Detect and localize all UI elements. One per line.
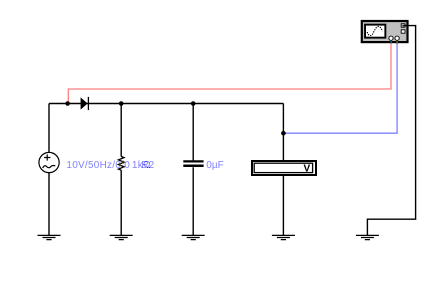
node A dot	[65, 101, 70, 106]
node B dot	[119, 101, 124, 106]
wire resistor branch lower	[120, 170, 122, 235]
svg-text:0µF: 0µF	[206, 160, 223, 171]
resistor R zigzag	[118, 156, 124, 170]
oscilloscope terminal T1 pin dot	[402, 25, 404, 27]
diode D1 triangle	[81, 97, 88, 109]
capacitor C plate top	[183, 160, 203, 162]
ground 1 (source)	[38, 235, 61, 239]
oscilloscope body	[362, 21, 408, 42]
capacitor C plate bottom	[183, 165, 203, 168]
svg-text:10V/50Hz/0°: 10V/50Hz/0°	[66, 160, 125, 171]
wire oscilloscope ground run	[367, 26, 415, 236]
ground 3 (capacitor)	[182, 235, 205, 239]
wire left vertical to source top	[48, 104, 50, 153]
wire voltmeter bottom to ground	[282, 176, 284, 236]
AC source V1 circle	[39, 152, 59, 172]
svg-text:0: 0	[124, 160, 130, 171]
ground 5 (oscilloscope)	[356, 235, 379, 239]
wire top horizontal bus	[49, 103, 283, 105]
ground 4 (voltmeter)	[272, 235, 295, 239]
diode D1 cathode bar	[87, 97, 89, 110]
voltmeter outer box	[252, 161, 316, 175]
blue probe wire	[286, 41, 398, 134]
AC source tilde	[43, 166, 56, 168]
node D dot	[281, 131, 286, 136]
wire capacitor branch upper	[192, 104, 194, 161]
red probe wire	[68, 41, 391, 102]
oscilloscope terminal T1 (top)	[401, 24, 405, 27]
oscilloscope screen	[365, 25, 385, 38]
oscilloscope probe terminal A	[389, 36, 393, 40]
AC source plus sign	[44, 154, 50, 160]
oscilloscope terminal T2	[401, 30, 405, 33]
wire right vertical to voltmeter	[282, 104, 284, 161]
wire capacitor branch lower	[192, 167, 194, 235]
svg-text:R2: R2	[141, 160, 154, 171]
ground 2 (resistor)	[110, 235, 133, 239]
voltmeter inner box	[254, 163, 312, 172]
wire resistor branch upper	[120, 104, 122, 157]
oscilloscope probe terminal B	[395, 36, 399, 40]
wire source bottom to ground	[48, 173, 50, 236]
svg-text:V: V	[304, 163, 311, 174]
oscilloscope sine trace	[367, 26, 382, 35]
node C dot	[191, 101, 196, 106]
